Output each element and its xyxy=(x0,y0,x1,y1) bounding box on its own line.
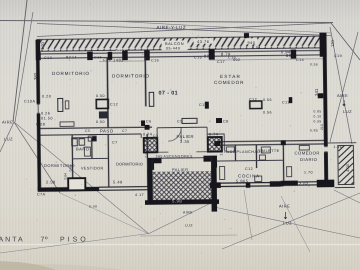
svg-text:TOILETTE: TOILETTE xyxy=(258,149,280,153)
stair core: right wall xyxy=(211,167,217,212)
svg-text:C7A: C7A xyxy=(37,192,46,196)
svg-text:C12: C12 xyxy=(249,98,257,102)
svg-text:120: 120 xyxy=(330,40,335,47)
stair core: left wall xyxy=(147,169,152,204)
svg-text:AIRE: AIRE xyxy=(279,204,290,209)
svg-text:C17: C17 xyxy=(217,60,225,64)
svg-text:2.58: 2.58 xyxy=(46,179,56,184)
svg-text:C10A: C10A xyxy=(24,99,36,103)
svg-text:PISO: PISO xyxy=(60,236,89,243)
stair core: hatched stair well xyxy=(152,158,212,201)
svg-text:0.08: 0.08 xyxy=(36,123,45,127)
svg-text:C5: C5 xyxy=(85,129,90,133)
svg-text:0.74: 0.74 xyxy=(143,132,152,136)
bath fixtures xyxy=(72,139,78,146)
building top wall (double line) xyxy=(37,51,323,59)
svg-text:0.50: 0.50 xyxy=(96,94,105,98)
svg-text:383: 383 xyxy=(33,72,38,80)
svg-text:C7: C7 xyxy=(122,129,127,133)
svg-text:C11: C11 xyxy=(199,103,207,107)
left exterior wall xyxy=(36,54,40,104)
svg-text:5.865: 5.865 xyxy=(236,178,249,183)
svg-text:VESTIDOR: VESTIDOR xyxy=(81,167,104,171)
furniture and fixture marks xyxy=(96,99,108,108)
svg-text:0.56: 0.56 xyxy=(263,98,272,102)
svg-text:C16: C16 xyxy=(103,58,111,62)
svg-text:1.20: 1.20 xyxy=(40,41,45,50)
scan band bottom xyxy=(0,244,360,246)
svg-text:C15: C15 xyxy=(94,56,102,60)
svg-text:1483: 1483 xyxy=(113,57,124,62)
palier lines xyxy=(157,151,207,154)
svg-text:0.85: 0.85 xyxy=(310,129,318,133)
elevator shaft left xyxy=(144,138,158,153)
svg-text:0.20: 0.20 xyxy=(42,95,51,99)
stair core: corner blocks xyxy=(148,158,162,170)
svg-text:COMEDOR: COMEDOR xyxy=(214,80,244,85)
svg-text:C14: C14 xyxy=(296,58,304,62)
svg-text:DORMITORIO: DORMITORIO xyxy=(52,71,90,76)
svg-text:AIRE: AIRE xyxy=(337,93,348,98)
svg-text:43.76: 43.76 xyxy=(197,39,210,44)
site: top property line xyxy=(0,21,333,23)
svg-text:0.94: 0.94 xyxy=(252,46,261,50)
site: right boundary diagonal xyxy=(331,23,360,60)
svg-text:1.96: 1.96 xyxy=(334,145,343,149)
site: top air-shaft X diagonals xyxy=(37,23,331,37)
svg-text:C19: C19 xyxy=(334,54,342,58)
svg-text:C16: C16 xyxy=(151,58,159,62)
svg-text:LUZ: LUZ xyxy=(185,224,193,228)
svg-text:0.84: 0.84 xyxy=(64,173,68,180)
svg-text:LUZ: LUZ xyxy=(4,137,13,142)
svg-text:4.04: 4.04 xyxy=(345,163,350,172)
svg-text:C7: C7 xyxy=(112,140,118,144)
svg-text:C9: C9 xyxy=(177,120,183,124)
elevator shaft right xyxy=(208,137,222,152)
svg-text:0.95: 0.95 xyxy=(314,119,322,123)
svg-text:DORMITORIO: DORMITORIO xyxy=(116,161,143,166)
svg-text:894: 894 xyxy=(204,54,212,59)
svg-text:C8: C8 xyxy=(223,120,229,124)
svg-text:0.08: 0.08 xyxy=(89,204,97,208)
svg-text:0.74: 0.74 xyxy=(209,132,218,136)
svg-text:C3: C3 xyxy=(153,134,158,138)
bottom wall left part (thick) xyxy=(38,187,100,192)
svg-text:LUZ: LUZ xyxy=(283,221,292,226)
svg-text:C12: C12 xyxy=(110,103,118,107)
svg-text:BALCON: BALCON xyxy=(165,41,184,46)
svg-text:PASO: PASO xyxy=(224,150,236,154)
svg-text:4.17: 4.17 xyxy=(135,193,144,197)
svg-text:213: 213 xyxy=(320,124,324,130)
svg-text:0.10: 0.10 xyxy=(314,115,322,119)
svg-text:5.98: 5.98 xyxy=(172,198,182,203)
svg-text:DIARIO: DIARIO xyxy=(300,157,318,162)
left wall window xyxy=(37,104,40,114)
kitchen bottom wall xyxy=(220,182,284,186)
svg-text:PASO: PASO xyxy=(100,129,114,134)
svg-text:DORMITORIO: DORMITORIO xyxy=(112,74,150,79)
site: left boundary diagonals xyxy=(13,0,27,122)
balcony mid pier xyxy=(244,33,249,38)
svg-text:C13: C13 xyxy=(44,56,52,60)
svg-text:0.56: 0.56 xyxy=(263,111,272,115)
svg-text:ESTAR: ESTAR xyxy=(220,74,241,79)
interior verticals top row: partition dorm1/dorm2, dorm2/estar xyxy=(107,57,146,127)
svg-text:3.44: 3.44 xyxy=(220,149,224,155)
right balcony hatched band xyxy=(338,137,353,195)
svg-text:5.49: 5.49 xyxy=(113,180,123,185)
svg-text:0.85: 0.85 xyxy=(314,110,322,114)
svg-text:PALIER: PALIER xyxy=(172,167,189,172)
closet on bottom wall xyxy=(68,178,85,190)
wall piers top xyxy=(36,52,41,60)
top balcony hatched band xyxy=(37,36,323,51)
svg-text:01.50: 01.50 xyxy=(41,117,53,121)
svg-text:C15: C15 xyxy=(194,56,202,60)
svg-text:0.56: 0.56 xyxy=(310,63,318,67)
svg-text:COMEDOR: COMEDOR xyxy=(295,151,320,156)
svg-text:7º: 7º xyxy=(41,236,49,243)
right exterior wall xyxy=(323,55,328,146)
room and dimension labels xyxy=(157,25,187,30)
svg-text:341: 341 xyxy=(314,88,319,96)
stair core: bottom wall xyxy=(145,199,219,205)
svg-text:ANTA: ANTA xyxy=(0,236,25,243)
svg-text:0.60: 0.60 xyxy=(69,165,73,172)
bottom-left corner shadow xyxy=(0,261,64,270)
svg-text:C11: C11 xyxy=(282,101,290,105)
balcony left pier xyxy=(36,40,41,53)
svg-text:940: 940 xyxy=(248,41,256,45)
right-bottom quadrant: wall estar/south rooms xyxy=(216,140,324,145)
rotated dimension labels xyxy=(33,40,350,180)
svg-text:0.26: 0.26 xyxy=(41,112,50,116)
svg-text:365: 365 xyxy=(156,154,163,158)
corridor horizontals xyxy=(40,127,152,135)
comedor bottom wall xyxy=(281,181,298,186)
svg-text:BC14: BC14 xyxy=(66,56,77,60)
site: right air-shaft X xyxy=(330,27,352,144)
svg-text:07 - 01: 07 - 01 xyxy=(159,91,179,97)
svg-text:LUZ: LUZ xyxy=(343,109,352,114)
svg-text:AIRE-Y-LUZ: AIRE-Y-LUZ xyxy=(157,25,187,30)
top-right corner pier xyxy=(319,33,326,57)
partitions paso/planchado/toilette/cocina/comedor xyxy=(235,144,283,182)
svg-text:AIRE: AIRE xyxy=(183,211,193,215)
svg-text:1.70: 1.70 xyxy=(304,171,313,175)
svg-text:BAÑO: BAÑO xyxy=(76,147,89,152)
svg-text:AIRE: AIRE xyxy=(2,120,13,125)
site: bottom patio diagonals xyxy=(14,122,149,234)
svg-text:C6: C6 xyxy=(146,120,152,124)
bottom-left quadrant partitions xyxy=(72,134,148,187)
svg-text:0.90: 0.90 xyxy=(145,151,149,157)
svg-text:ASCENSORES: ASCENSORES xyxy=(164,154,193,158)
svg-text:C12: C12 xyxy=(245,167,253,171)
svg-text:05-449: 05-449 xyxy=(166,46,180,50)
svg-text:3.35: 3.35 xyxy=(180,139,190,144)
svg-text:0.94: 0.94 xyxy=(281,50,291,55)
svg-text:2.62: 2.62 xyxy=(299,181,309,186)
svg-text:C16: C16 xyxy=(228,55,236,59)
svg-text:0.50: 0.50 xyxy=(96,120,105,124)
